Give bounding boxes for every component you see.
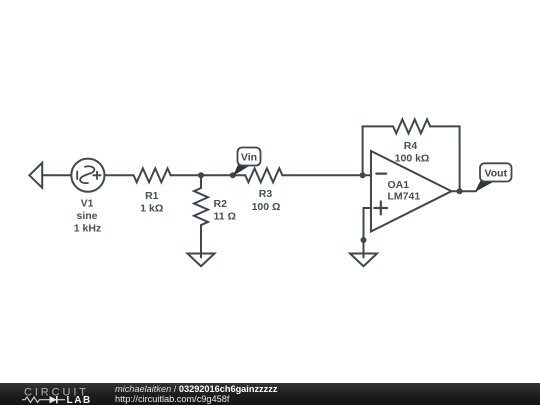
svg-text:1 kΩ: 1 kΩ (140, 202, 163, 214)
node output (457, 188, 463, 194)
svg-text:11 Ω: 11 Ω (214, 210, 236, 222)
svg-text:R2: R2 (214, 198, 228, 210)
resistor R4 (393, 119, 430, 133)
node junction R1 R2 (198, 172, 204, 178)
svg-text:V1: V1 (81, 198, 94, 210)
svg-text:R1: R1 (145, 190, 159, 202)
resistor R2 (194, 188, 208, 225)
svg-text:1 kHz: 1 kHz (74, 222, 101, 234)
node inverting input (360, 172, 366, 178)
svg-text:michaelaitken / 03292016ch6gai: michaelaitken / 03292016ch6gainzzzzz (115, 384, 278, 394)
svg-text:sine: sine (76, 210, 97, 222)
node Vin (230, 172, 236, 178)
resistor R3 (245, 168, 282, 182)
wire R2 to ground (200, 225, 202, 258)
wire junction to R2 (200, 175, 202, 188)
CircuitLab logo diode (44, 399, 50, 401)
svg-text:100 kΩ: 100 kΩ (395, 152, 430, 164)
wire V1 to R1 (105, 174, 134, 176)
Vout tag pointer (475, 180, 493, 192)
input port triangle (29, 163, 42, 188)
feedback wire left and top (363, 126, 394, 175)
svg-text:LAB: LAB (67, 395, 92, 405)
svg-text:Vout: Vout (485, 168, 508, 180)
node plus-ground (361, 237, 367, 243)
ground under R2 (188, 254, 215, 267)
op-amp plus sign (374, 202, 387, 215)
op-amp OA1 triangle (371, 151, 452, 232)
Vout tag box (480, 163, 512, 181)
V1 plus sign (93, 172, 100, 179)
V1 sine squiggle (80, 166, 94, 183)
wire op-amp output (452, 190, 477, 192)
V1 minus terminal bar (76, 171, 78, 179)
voltage source V1 circle (71, 159, 104, 192)
svg-text:Vin: Vin (241, 152, 257, 164)
wire op-amp plus input (364, 208, 372, 258)
svg-text:LM741: LM741 (388, 191, 421, 203)
svg-text:100 Ω: 100 Ω (252, 201, 281, 213)
feedback wire right (430, 126, 459, 191)
svg-text:http://circuitlab.com/c9g458f: http://circuitlab.com/c9g458f (115, 394, 230, 404)
Vin tag pointer (233, 164, 250, 176)
op-amp minus sign (376, 173, 386, 175)
wire R3 to op-amp (282, 174, 371, 176)
ground under op-amp (350, 254, 377, 267)
wire R1 to R3 (171, 174, 246, 176)
CircuitLab logo resistor zigzag (22, 397, 44, 402)
svg-text:OA1: OA1 (388, 179, 410, 191)
resistor R1 (134, 168, 171, 182)
Vin tag box (238, 148, 261, 166)
svg-text:R3: R3 (259, 188, 273, 200)
svg-text:R4: R4 (404, 140, 418, 152)
wire port to V1 (42, 174, 71, 176)
